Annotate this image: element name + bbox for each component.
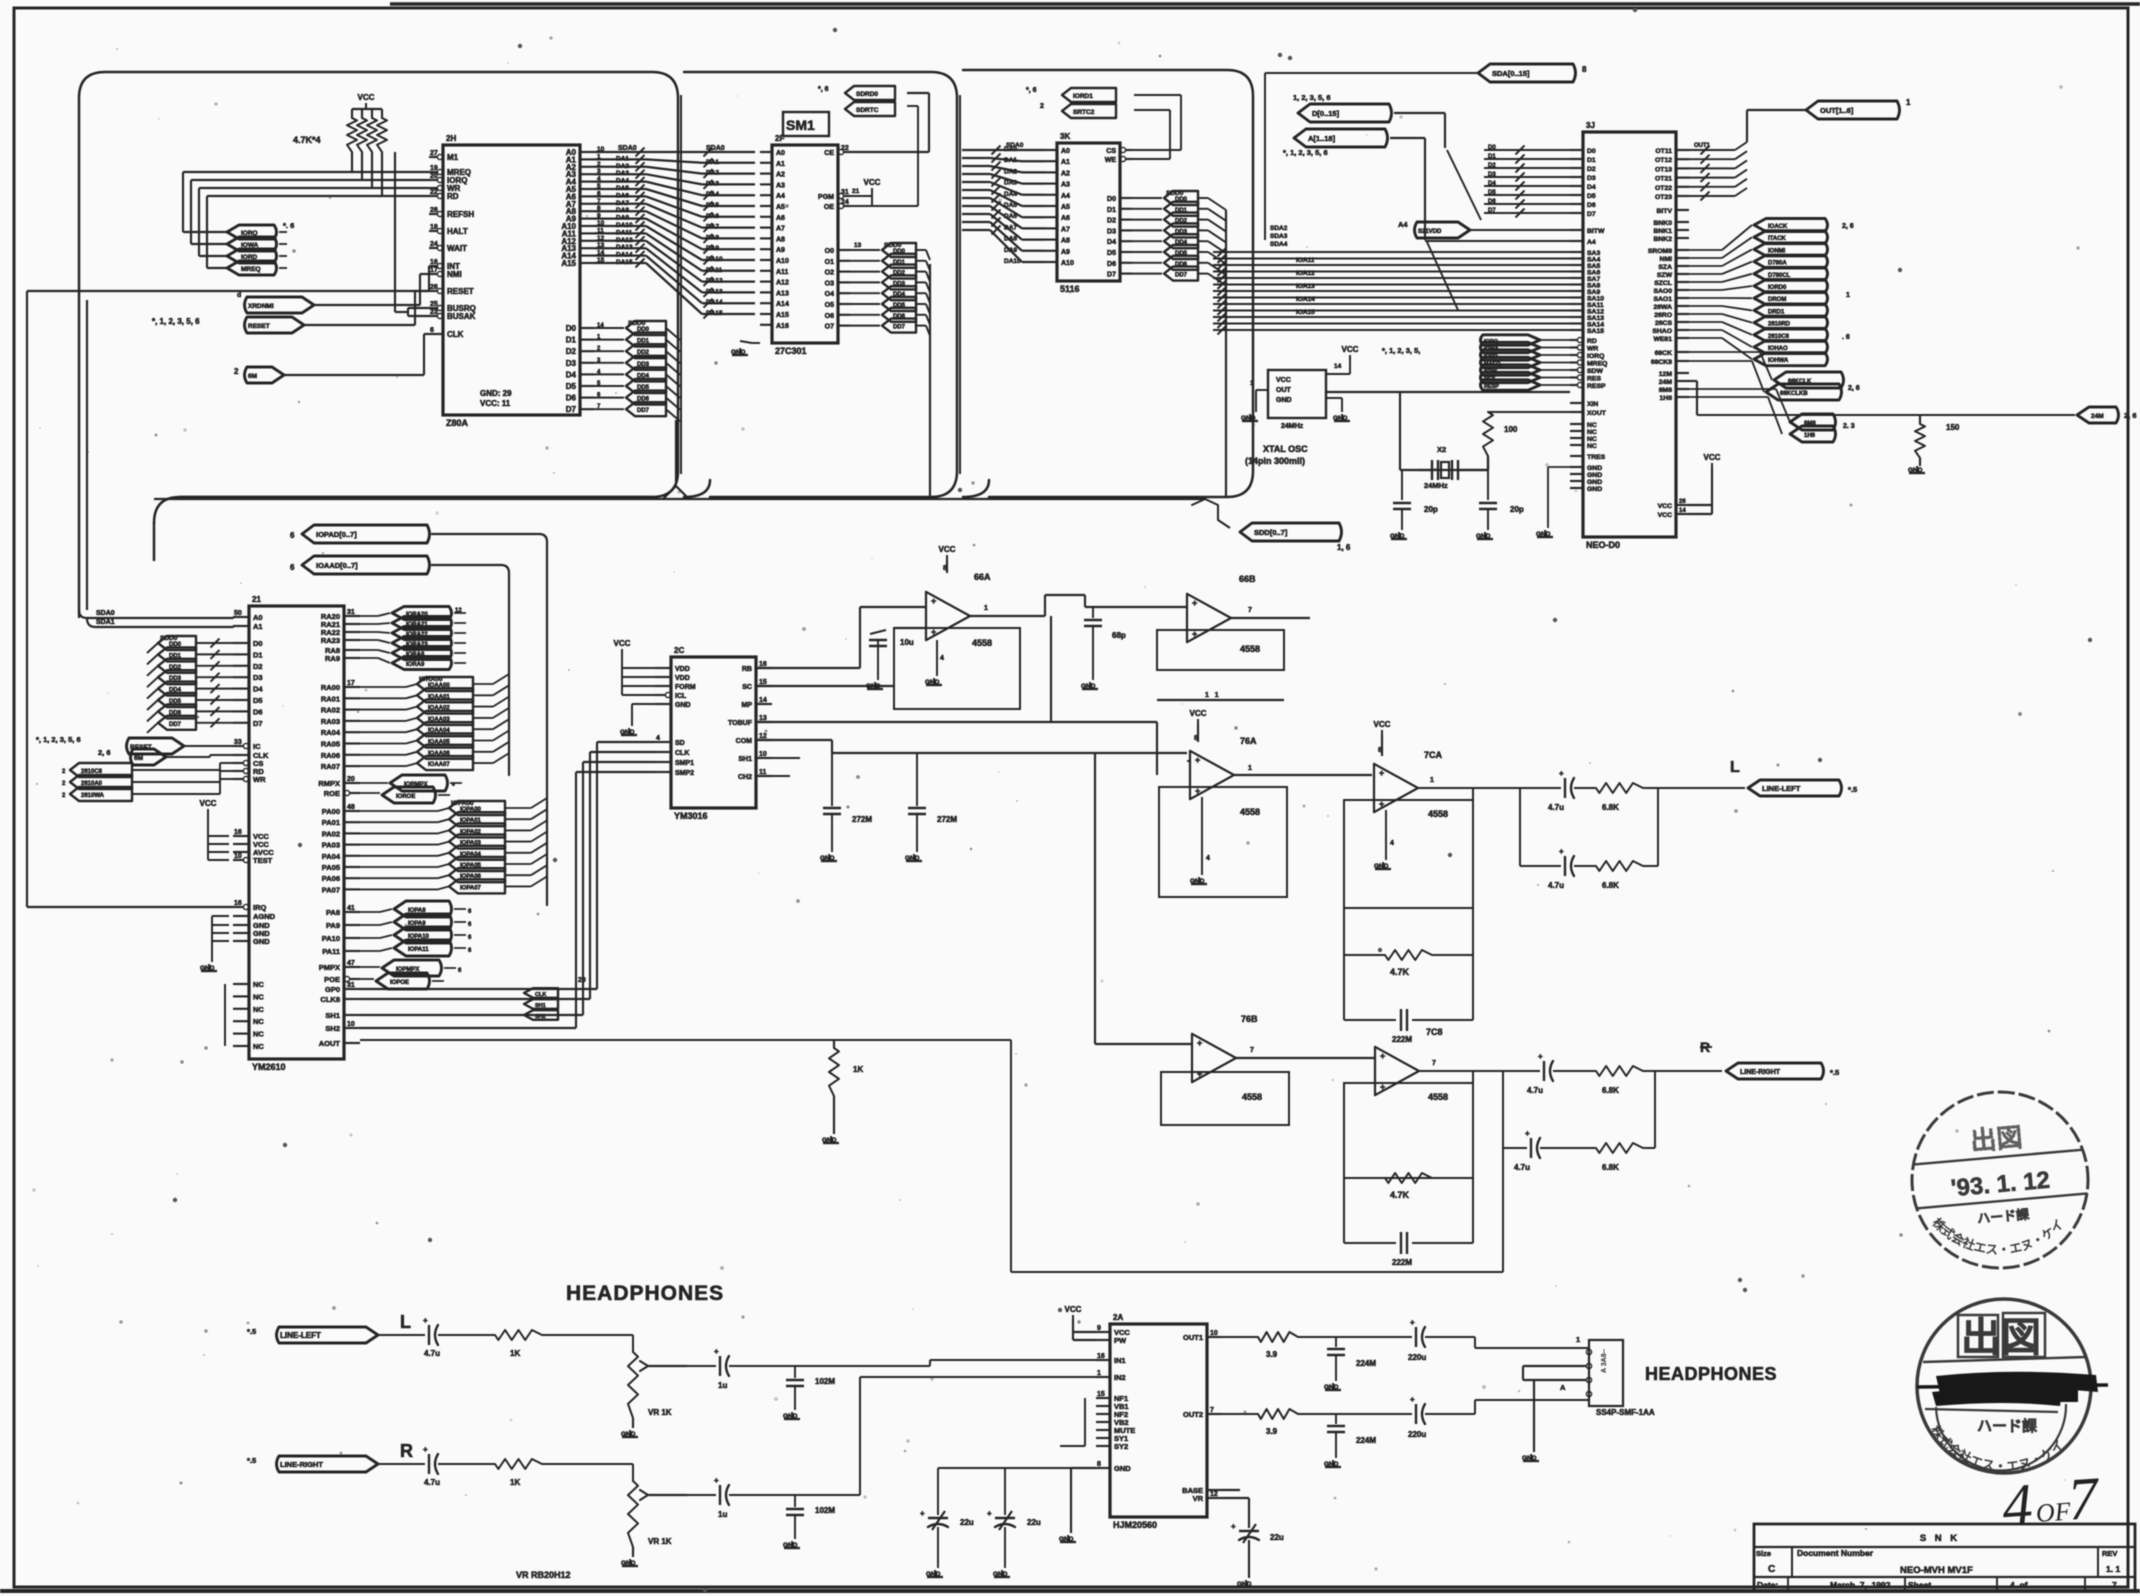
svg-text:CS: CS bbox=[1106, 148, 1116, 155]
svg-text:+: + bbox=[1197, 1069, 1202, 1079]
svg-text:+: + bbox=[1380, 1051, 1385, 1061]
svg-text:GND: GND bbox=[1587, 465, 1602, 472]
svg-text:4: 4 bbox=[1390, 840, 1394, 847]
svg-text:OUT1: OUT1 bbox=[1183, 1333, 1203, 1342]
svg-text:26RO: 26RO bbox=[1654, 312, 1672, 319]
svg-text:+: + bbox=[1559, 847, 1564, 856]
svg-text:68CK8: 68CK8 bbox=[1651, 359, 1672, 366]
svg-text:O0: O0 bbox=[825, 248, 834, 255]
svg-text:22: 22 bbox=[430, 189, 438, 196]
svg-text:IOAA07: IOAA07 bbox=[428, 762, 450, 768]
svg-text:NC: NC bbox=[1587, 436, 1597, 443]
svg-text:16: 16 bbox=[234, 829, 242, 836]
svg-text:A9: A9 bbox=[1061, 249, 1070, 256]
svg-text:RMPX: RMPX bbox=[318, 779, 340, 788]
svg-text:TRES: TRES bbox=[1587, 454, 1606, 461]
svg-text:VDD: VDD bbox=[675, 666, 690, 673]
svg-text:A8: A8 bbox=[776, 236, 785, 243]
svg-text:220u: 220u bbox=[1408, 1430, 1426, 1439]
svg-text:24: 24 bbox=[841, 199, 849, 206]
svg-text:A5: A5 bbox=[1061, 204, 1070, 211]
svg-text:出図: 出図 bbox=[1961, 1316, 2041, 1360]
svg-text:7: 7 bbox=[2112, 1580, 2117, 1590]
svg-text:20: 20 bbox=[430, 173, 438, 180]
svg-text:A16: A16 bbox=[776, 323, 789, 330]
svg-text:14: 14 bbox=[597, 250, 605, 257]
svg-text:IOAAD[0..7]: IOAAD[0..7] bbox=[316, 561, 358, 570]
svg-text:BNK1: BNK1 bbox=[1653, 228, 1672, 235]
svg-text:BUSAK: BUSAK bbox=[447, 312, 476, 321]
svg-text:+: + bbox=[1192, 598, 1197, 608]
svg-text:FORM: FORM bbox=[675, 684, 696, 691]
svg-text:DA9: DA9 bbox=[616, 215, 629, 222]
svg-text:16: 16 bbox=[1097, 1353, 1105, 1360]
svg-text:DA12: DA12 bbox=[616, 237, 633, 244]
svg-text:10: 10 bbox=[759, 751, 767, 758]
svg-text:D0: D0 bbox=[1587, 148, 1596, 155]
svg-text:SC: SC bbox=[742, 684, 752, 691]
svg-text:2A: 2A bbox=[1113, 1313, 1123, 1322]
svg-text:GND: GND bbox=[621, 1560, 636, 1567]
svg-text:IORQ: IORQ bbox=[1587, 353, 1604, 360]
svg-text:IRQ: IRQ bbox=[253, 903, 267, 912]
svg-text:CLK8: CLK8 bbox=[320, 995, 340, 1004]
svg-text:1u: 1u bbox=[718, 1510, 727, 1519]
svg-text:6.8K: 6.8K bbox=[1602, 1163, 1619, 1172]
svg-text:13: 13 bbox=[597, 242, 605, 249]
svg-text:RD: RD bbox=[1587, 338, 1597, 345]
svg-text:O2: O2 bbox=[825, 270, 834, 277]
svg-text:OT21: OT21 bbox=[1655, 176, 1672, 183]
svg-text:SDA2: SDA2 bbox=[1270, 225, 1288, 232]
svg-text:RA02: RA02 bbox=[321, 706, 340, 715]
svg-text:D5: D5 bbox=[566, 382, 577, 391]
svg-text:O3: O3 bbox=[825, 280, 834, 287]
svg-text:150: 150 bbox=[1946, 423, 1960, 432]
svg-text:*.5: *.5 bbox=[247, 1456, 256, 1465]
svg-text:1, 2, 3, 5, 6: 1, 2, 3, 5, 6 bbox=[1293, 93, 1331, 102]
svg-text:A3: A3 bbox=[1061, 182, 1070, 189]
svg-text:11: 11 bbox=[597, 227, 604, 234]
svg-text:NEO-MVH MV1F: NEO-MVH MV1F bbox=[1900, 1565, 1973, 1576]
svg-text:22u: 22u bbox=[960, 1518, 974, 1527]
svg-text:+: + bbox=[1197, 1038, 1202, 1048]
svg-text:A7: A7 bbox=[776, 226, 785, 233]
svg-text:4.7u: 4.7u bbox=[1548, 881, 1564, 890]
svg-text:100: 100 bbox=[1504, 425, 1518, 434]
svg-text:RA05: RA05 bbox=[321, 740, 340, 749]
svg-text:YM3016: YM3016 bbox=[674, 811, 708, 821]
svg-text:*, 1, 2, 3, 5, 6: *, 1, 2, 3, 5, 6 bbox=[152, 317, 200, 326]
svg-text:17: 17 bbox=[430, 267, 438, 274]
svg-text:MREQ: MREQ bbox=[1587, 361, 1607, 368]
svg-text:DA7: DA7 bbox=[706, 224, 719, 231]
svg-text:31: 31 bbox=[347, 982, 355, 989]
svg-text:A: A bbox=[1560, 1383, 1566, 1392]
svg-text:A4: A4 bbox=[1398, 220, 1408, 229]
svg-text:SDA[0..15]: SDA[0..15] bbox=[1492, 69, 1530, 78]
svg-text:VR: VR bbox=[1193, 1494, 1204, 1503]
svg-text:PA11: PA11 bbox=[322, 947, 340, 956]
svg-text:10: 10 bbox=[347, 1021, 355, 1028]
svg-text:+: + bbox=[714, 1347, 719, 1356]
svg-text:D1: D1 bbox=[1587, 157, 1596, 164]
svg-text:SDA0: SDA0 bbox=[618, 145, 637, 152]
svg-text:DA4: DA4 bbox=[706, 191, 719, 198]
svg-text:RA04: RA04 bbox=[321, 728, 341, 737]
svg-text:OT12: OT12 bbox=[1655, 157, 1672, 164]
svg-text:14: 14 bbox=[759, 697, 767, 704]
svg-text:1: 1 bbox=[1430, 777, 1434, 784]
svg-text:14: 14 bbox=[1334, 363, 1342, 370]
svg-text:18: 18 bbox=[430, 224, 438, 231]
svg-text:D6: D6 bbox=[253, 707, 263, 716]
svg-text:DA1: DA1 bbox=[616, 155, 629, 162]
svg-text:2. 3: 2. 3 bbox=[1843, 423, 1855, 430]
svg-text:DA6: DA6 bbox=[616, 192, 629, 199]
svg-text:+: + bbox=[920, 1509, 925, 1518]
svg-text:GND: GND bbox=[1114, 1464, 1131, 1473]
svg-text:8: 8 bbox=[1582, 65, 1587, 74]
svg-text:6.8K: 6.8K bbox=[1602, 881, 1619, 890]
svg-text:1K: 1K bbox=[853, 1065, 863, 1074]
svg-text:8M8: 8M8 bbox=[1659, 387, 1672, 394]
svg-text:*: * bbox=[452, 783, 455, 790]
svg-text:3.9: 3.9 bbox=[1266, 1350, 1278, 1359]
svg-text:IOPA11: IOPA11 bbox=[408, 947, 429, 953]
svg-text:SDA0: SDA0 bbox=[706, 145, 725, 152]
svg-text:15: 15 bbox=[597, 257, 605, 264]
svg-text:REFSH: REFSH bbox=[447, 210, 474, 219]
svg-text:7: 7 bbox=[1248, 607, 1252, 614]
svg-text:6: 6 bbox=[290, 531, 295, 540]
svg-text:A2: A2 bbox=[776, 172, 785, 179]
svg-text:D0: D0 bbox=[253, 639, 263, 648]
svg-text:VR 1K: VR 1K bbox=[648, 1408, 672, 1417]
svg-text:D0: D0 bbox=[1488, 145, 1496, 151]
svg-text:DD7: DD7 bbox=[637, 408, 650, 414]
svg-text:272M: 272M bbox=[937, 815, 957, 824]
svg-text:IOA13: IOA13 bbox=[1296, 283, 1315, 290]
svg-text:11: 11 bbox=[759, 769, 767, 776]
svg-text:3J: 3J bbox=[1586, 121, 1595, 130]
svg-text:+: + bbox=[1231, 1522, 1236, 1531]
svg-text:SDA3: SDA3 bbox=[1270, 233, 1288, 240]
svg-text:SMP1: SMP1 bbox=[675, 760, 694, 767]
svg-text:DA5: DA5 bbox=[616, 185, 629, 192]
svg-text:*.5: *.5 bbox=[1848, 785, 1857, 794]
svg-text:D7: D7 bbox=[1587, 211, 1596, 218]
svg-text:D2: D2 bbox=[253, 662, 263, 671]
svg-text:GND: GND bbox=[1587, 486, 1602, 493]
svg-text:1K: 1K bbox=[510, 1478, 520, 1487]
svg-text:ICL: ICL bbox=[675, 693, 687, 700]
svg-text:DRD1: DRD1 bbox=[1768, 309, 1785, 315]
svg-text:GND: GND bbox=[993, 1571, 1008, 1578]
svg-text:66B: 66B bbox=[1239, 574, 1256, 584]
svg-text:WAIT: WAIT bbox=[447, 244, 467, 253]
svg-text:DA3: DA3 bbox=[706, 180, 719, 187]
svg-text:A[1..18]: A[1..18] bbox=[1308, 134, 1336, 143]
svg-text:DA2: DA2 bbox=[616, 163, 629, 170]
svg-text:GND: GND bbox=[1276, 397, 1292, 404]
svg-text:GND: GND bbox=[1059, 1536, 1074, 1543]
svg-text:A13: A13 bbox=[776, 290, 789, 297]
svg-text:22: 22 bbox=[841, 145, 849, 152]
svg-text:26: 26 bbox=[1679, 499, 1686, 505]
svg-text:DA1: DA1 bbox=[706, 159, 719, 166]
svg-text:68CK: 68CK bbox=[1655, 350, 1672, 357]
svg-text:RESET: RESET bbox=[248, 323, 270, 330]
svg-text:OT11: OT11 bbox=[1655, 148, 1672, 155]
svg-text:+: + bbox=[1195, 755, 1200, 765]
svg-text:SMP2: SMP2 bbox=[675, 770, 694, 777]
svg-text:12: 12 bbox=[1210, 1491, 1218, 1498]
svg-text:31: 31 bbox=[347, 609, 355, 616]
svg-text:DA5: DA5 bbox=[706, 202, 719, 209]
svg-text:IOPA00: IOPA00 bbox=[451, 800, 474, 807]
svg-text:D780A: D780A bbox=[1768, 261, 1787, 267]
svg-text:IORD0: IORD0 bbox=[1768, 285, 1787, 291]
svg-text:A0: A0 bbox=[776, 150, 785, 157]
svg-text:4.7u: 4.7u bbox=[424, 1349, 440, 1358]
svg-text:IOPA07: IOPA07 bbox=[460, 885, 482, 891]
svg-text:8: 8 bbox=[1378, 747, 1382, 754]
svg-text:+: + bbox=[987, 1509, 992, 1518]
svg-text:+: + bbox=[931, 596, 936, 606]
svg-text:24: 24 bbox=[430, 241, 438, 248]
svg-text:DA3: DA3 bbox=[616, 170, 629, 177]
svg-text:2610WA: 2610WA bbox=[81, 793, 105, 799]
svg-text:6: 6 bbox=[597, 190, 601, 197]
svg-text:BITV: BITV bbox=[1657, 208, 1673, 215]
svg-text:4558: 4558 bbox=[1428, 809, 1448, 819]
svg-text:D4: D4 bbox=[1587, 184, 1596, 191]
svg-text:4.7K*4: 4.7K*4 bbox=[293, 135, 321, 145]
svg-text:VR 1K: VR 1K bbox=[648, 1537, 672, 1546]
svg-text:41: 41 bbox=[347, 905, 355, 912]
svg-text:WR: WR bbox=[1587, 346, 1598, 353]
svg-text:S N K: S N K bbox=[1920, 1533, 1960, 1544]
svg-text:PA10: PA10 bbox=[322, 934, 340, 943]
svg-text:D6: D6 bbox=[1587, 202, 1596, 209]
svg-text:ROE: ROE bbox=[324, 789, 340, 798]
svg-text:DA14: DA14 bbox=[706, 299, 723, 306]
svg-text:BNK2: BNK2 bbox=[1653, 236, 1672, 243]
svg-text:DA8: DA8 bbox=[616, 207, 629, 214]
svg-text:15: 15 bbox=[1097, 1391, 1105, 1398]
svg-text:13: 13 bbox=[854, 242, 862, 249]
svg-text:GND: GND bbox=[822, 1137, 837, 1144]
svg-text:22u: 22u bbox=[1270, 1533, 1284, 1542]
svg-text:*, 1, 2, 3, 5, 6: *, 1, 2, 3, 5, 6 bbox=[1283, 148, 1328, 157]
svg-text:A6: A6 bbox=[776, 215, 785, 222]
svg-text:2: 2 bbox=[1040, 103, 1044, 110]
svg-text:d: d bbox=[237, 292, 241, 299]
svg-text:DA2: DA2 bbox=[1004, 168, 1017, 175]
svg-text:WE81: WE81 bbox=[1653, 336, 1672, 343]
svg-text:DD7: DD7 bbox=[169, 722, 182, 728]
svg-text:IOA14: IOA14 bbox=[1296, 296, 1315, 303]
svg-text:4: 4 bbox=[656, 735, 660, 742]
svg-text:+: + bbox=[423, 1445, 428, 1454]
svg-text:D7: D7 bbox=[1488, 208, 1496, 214]
svg-text:224M: 224M bbox=[1356, 1436, 1376, 1445]
svg-text:IOROE: IOROE bbox=[396, 794, 415, 800]
svg-text:PA00: PA00 bbox=[322, 807, 340, 816]
svg-text:*, 6: *, 6 bbox=[1026, 87, 1037, 94]
svg-text:NC: NC bbox=[253, 1005, 264, 1014]
svg-text:SDD[0..7]: SDD[0..7] bbox=[1254, 528, 1288, 537]
svg-text:IOPOE: IOPOE bbox=[390, 980, 409, 986]
svg-text:1: 1 bbox=[1250, 380, 1254, 387]
svg-text:*, 6: *, 6 bbox=[818, 86, 829, 93]
svg-text:M1: M1 bbox=[447, 153, 459, 162]
svg-text:O6: O6 bbox=[825, 313, 834, 320]
svg-text:NC: NC bbox=[1587, 422, 1597, 429]
svg-text:17: 17 bbox=[347, 680, 355, 687]
svg-text:4: 4 bbox=[2000, 1471, 2035, 1539]
svg-text:SZW: SZW bbox=[1657, 272, 1673, 279]
svg-text:A1: A1 bbox=[776, 161, 785, 168]
svg-text:GND: GND bbox=[1190, 878, 1205, 885]
svg-text:2, 6: 2, 6 bbox=[2124, 411, 2137, 420]
svg-text:HEADPHONES: HEADPHONES bbox=[1645, 1364, 1777, 1384]
svg-text:IOA12: IOA12 bbox=[1296, 270, 1315, 277]
svg-text:COM: COM bbox=[736, 738, 753, 745]
svg-text:24M: 24M bbox=[2091, 413, 2104, 420]
svg-text:A8: A8 bbox=[1061, 238, 1070, 245]
svg-text:GND: GND bbox=[200, 965, 215, 972]
svg-text:CE: CE bbox=[824, 150, 834, 157]
svg-text:IN1: IN1 bbox=[1114, 1356, 1126, 1365]
svg-text:9: 9 bbox=[597, 213, 601, 220]
svg-text:D0: D0 bbox=[566, 324, 577, 333]
svg-text:DA9: DA9 bbox=[706, 245, 719, 252]
svg-text:IOA11: IOA11 bbox=[1296, 257, 1315, 264]
svg-text:SD: SD bbox=[675, 740, 685, 747]
svg-text:D5: D5 bbox=[1587, 193, 1596, 200]
svg-text:2, 6: 2, 6 bbox=[1848, 385, 1860, 392]
svg-text:GND: GND bbox=[926, 1571, 941, 1578]
svg-text:1: 1 bbox=[1576, 1335, 1580, 1344]
svg-text:DA2: DA2 bbox=[706, 170, 719, 177]
svg-text:X2: X2 bbox=[1437, 445, 1446, 454]
svg-text:GND: GND bbox=[1390, 533, 1405, 540]
svg-text:4.7u: 4.7u bbox=[1514, 1163, 1530, 1172]
svg-text:HALT: HALT bbox=[447, 227, 468, 236]
svg-text:10u: 10u bbox=[900, 638, 914, 647]
svg-text:SH2: SH2 bbox=[325, 1024, 340, 1033]
svg-text:CH2: CH2 bbox=[738, 774, 752, 781]
svg-text:7: 7 bbox=[1432, 1060, 1436, 1067]
svg-text:GND: GND bbox=[620, 729, 635, 736]
svg-text:DA10: DA10 bbox=[616, 222, 633, 229]
svg-text:A2: A2 bbox=[1061, 170, 1070, 177]
svg-text:IOPAD[0..7]: IOPAD[0..7] bbox=[316, 530, 357, 539]
svg-text:IORA00: IORA00 bbox=[419, 676, 443, 683]
svg-text:IORA9: IORA9 bbox=[406, 662, 425, 668]
svg-text:NMI: NMI bbox=[447, 270, 462, 279]
svg-text:PA01: PA01 bbox=[322, 818, 340, 827]
svg-text:DA11: DA11 bbox=[706, 267, 723, 274]
svg-text:D2: D2 bbox=[566, 347, 577, 356]
svg-text:*.5: *.5 bbox=[247, 1327, 256, 1336]
svg-text:27: 27 bbox=[430, 150, 438, 157]
svg-text:SDA4: SDA4 bbox=[1270, 241, 1288, 248]
svg-text:76A: 76A bbox=[1240, 736, 1257, 746]
svg-text:VCC: VCC bbox=[1342, 345, 1359, 354]
svg-text:VCC: VCC bbox=[1658, 503, 1672, 510]
svg-text:D3: D3 bbox=[1488, 172, 1496, 178]
svg-text:+: + bbox=[1525, 1129, 1530, 1138]
svg-text:OUT2: OUT2 bbox=[1183, 1410, 1203, 1419]
svg-text:7: 7 bbox=[1250, 1047, 1254, 1054]
svg-text:BITW: BITW bbox=[1587, 228, 1605, 235]
svg-text:A5: A5 bbox=[776, 204, 785, 211]
svg-text:DA11: DA11 bbox=[616, 229, 633, 236]
svg-text:DA7: DA7 bbox=[616, 200, 629, 207]
svg-text:L: L bbox=[1730, 759, 1740, 776]
svg-text:SDRD0: SDRD0 bbox=[856, 91, 878, 98]
svg-text:VCC: 11: VCC: 11 bbox=[480, 399, 511, 408]
svg-text:25: 25 bbox=[430, 301, 438, 308]
svg-text:OT22: OT22 bbox=[1655, 185, 1672, 192]
svg-text:RA07: RA07 bbox=[321, 762, 340, 771]
svg-text:NC: NC bbox=[253, 1017, 264, 1026]
svg-text:GND: GND bbox=[1587, 472, 1602, 479]
svg-text:6: 6 bbox=[430, 327, 434, 334]
svg-text:GND: 29: GND: 29 bbox=[480, 389, 512, 398]
svg-text:D1: D1 bbox=[566, 336, 577, 345]
svg-text:SDW: SDW bbox=[1587, 368, 1603, 375]
svg-text:D5: D5 bbox=[253, 696, 263, 705]
svg-text:RA06: RA06 bbox=[321, 751, 340, 760]
svg-text:VCC: VCC bbox=[864, 178, 881, 187]
svg-text:LINE-RIGHT: LINE-RIGHT bbox=[280, 1460, 323, 1469]
svg-text:O1: O1 bbox=[825, 259, 834, 266]
svg-text:XIN: XIN bbox=[1587, 401, 1598, 408]
svg-text:A7: A7 bbox=[1061, 226, 1070, 233]
svg-text:+: + bbox=[423, 1316, 428, 1325]
svg-text:NC: NC bbox=[253, 1042, 264, 1051]
svg-text:L: L bbox=[400, 1312, 411, 1332]
svg-text:SS4P-SMF-1AA: SS4P-SMF-1AA bbox=[1596, 1408, 1655, 1417]
svg-text:16: 16 bbox=[234, 900, 242, 907]
svg-text:O5: O5 bbox=[825, 302, 834, 309]
svg-text:2610RD: 2610RD bbox=[1768, 322, 1791, 328]
svg-text:76B: 76B bbox=[1241, 1014, 1258, 1024]
svg-text:CLK: CLK bbox=[535, 992, 546, 998]
svg-text:102M: 102M bbox=[815, 1377, 835, 1386]
svg-text:21: 21 bbox=[252, 595, 261, 604]
svg-text:47: 47 bbox=[347, 960, 355, 967]
svg-text:4: 4 bbox=[1206, 855, 1210, 862]
svg-text:YM2610: YM2610 bbox=[252, 1062, 286, 1072]
svg-text:1. 1: 1. 1 bbox=[2106, 1564, 2120, 1574]
svg-text:1K: 1K bbox=[510, 1349, 520, 1358]
svg-text:24M: 24M bbox=[1659, 379, 1673, 386]
svg-text:SDA0: SDA0 bbox=[1006, 142, 1024, 149]
svg-text:WR: WR bbox=[253, 775, 266, 784]
svg-text:GND: GND bbox=[675, 702, 691, 709]
svg-text:OT23: OT23 bbox=[1655, 194, 1672, 201]
svg-text:23: 23 bbox=[430, 309, 438, 316]
svg-text:D5: D5 bbox=[1107, 250, 1116, 257]
svg-text:20p: 20p bbox=[1510, 505, 1524, 514]
svg-text:ITACK: ITACK bbox=[1768, 236, 1787, 242]
svg-text:A3: A3 bbox=[776, 182, 785, 189]
